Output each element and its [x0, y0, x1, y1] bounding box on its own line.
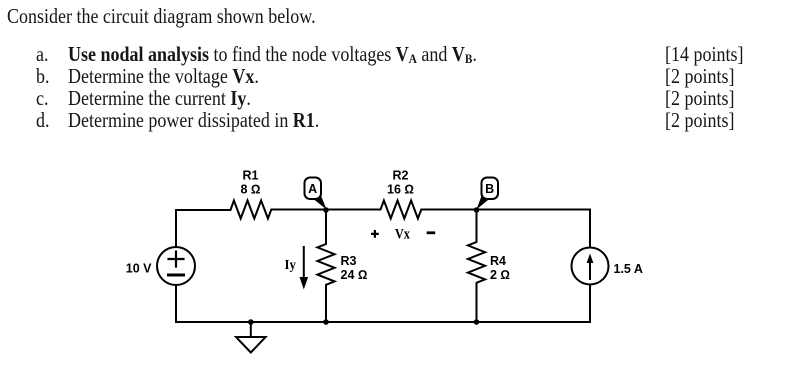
svg-text:R3: R3	[341, 254, 357, 268]
svg-text:Iy: Iy	[285, 257, 297, 272]
svg-text:10 V: 10 V	[126, 262, 152, 276]
svg-text:R4: R4	[490, 254, 506, 268]
svg-text:B: B	[485, 182, 494, 196]
svg-text:R2: R2	[393, 168, 409, 182]
svg-text:8 Ω: 8 Ω	[240, 183, 260, 197]
svg-text:1.5 A: 1.5 A	[614, 262, 643, 276]
svg-text:R1: R1	[243, 168, 259, 182]
svg-text:Vx: Vx	[395, 226, 411, 242]
svg-text:A: A	[308, 182, 317, 196]
svg-text:2 Ω: 2 Ω	[490, 268, 510, 282]
svg-text:16 Ω: 16 Ω	[387, 183, 414, 197]
svg-text:24 Ω: 24 Ω	[341, 268, 368, 282]
